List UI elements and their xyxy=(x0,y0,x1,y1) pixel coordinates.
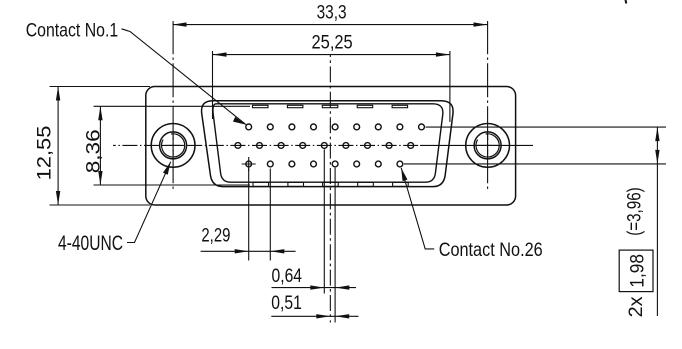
pin 19 crosshair xyxy=(242,157,256,171)
right screw centerline xyxy=(487,21,489,191)
left screw hole thread circle xyxy=(160,132,187,159)
vertical centerline xyxy=(329,55,331,323)
shroud inner D-shape xyxy=(213,104,443,182)
boxed 1,98 xyxy=(619,250,653,292)
right screw crosshair xyxy=(477,135,498,156)
svg-text:Contact No.1: Contact No.1 xyxy=(26,19,119,41)
horizontal centerline xyxy=(113,144,420,146)
dimension 12,55 xyxy=(50,87,151,206)
svg-text:2,29: 2,29 xyxy=(201,225,230,246)
svg-text:4-40UNC: 4-40UNC xyxy=(58,232,123,255)
dimension 2,29 xyxy=(201,169,296,261)
svg-text:(=3,96): (=3,96) xyxy=(625,187,646,236)
connector body shell outline xyxy=(146,87,516,206)
left screw centerline xyxy=(172,21,174,191)
shroud outer D-shape xyxy=(202,101,454,187)
svg-text:1,98: 1,98 xyxy=(628,254,649,288)
right screw hole thread circle xyxy=(474,132,501,159)
left screw crosshair xyxy=(163,135,184,156)
svg-text:2x: 2x xyxy=(626,296,647,318)
right extension line row3 xyxy=(404,163,666,165)
right extension line row1 xyxy=(426,126,667,128)
dimension 3,96 vertical line xyxy=(655,127,659,316)
svg-text:33,3: 33,3 xyxy=(317,3,347,24)
dimension 25,25 xyxy=(213,51,450,122)
svg-text:0,64: 0,64 xyxy=(272,266,303,287)
contact row 3 (pins 19-26) xyxy=(246,161,403,167)
horizontal centerline solid tail xyxy=(420,144,533,146)
stray tick top right xyxy=(625,0,628,4)
leader 4-40UNC xyxy=(127,162,171,243)
contact row 1 (pins 1-9) xyxy=(246,124,425,130)
dimension 0,51 xyxy=(271,314,358,318)
left screw hole minor arc xyxy=(162,134,185,157)
extension line row2 centre pin xyxy=(323,149,325,293)
left screw hole washer circle xyxy=(151,123,195,167)
dimension 33,3 xyxy=(173,22,488,26)
svg-text:25,25: 25,25 xyxy=(312,33,353,54)
svg-text:Contact No.26: Contact No.26 xyxy=(439,239,543,261)
svg-text:12,55: 12,55 xyxy=(35,126,56,181)
dimension 8,36 xyxy=(94,106,251,185)
contact row 2 (pins 10-18) xyxy=(235,143,414,149)
right screw hole washer circle xyxy=(466,123,510,167)
svg-text:0,51: 0,51 xyxy=(271,293,302,314)
leader Contact No.1 xyxy=(122,29,246,125)
extension line row3 centre pin xyxy=(334,168,336,323)
dimension 0,64 xyxy=(272,285,357,289)
leader Contact No.26 xyxy=(401,168,434,249)
top polarization slots xyxy=(253,105,408,107)
bottom polarization slots xyxy=(253,182,408,186)
right screw hole minor arc xyxy=(476,134,499,157)
svg-text:8,36: 8,36 xyxy=(83,129,104,173)
